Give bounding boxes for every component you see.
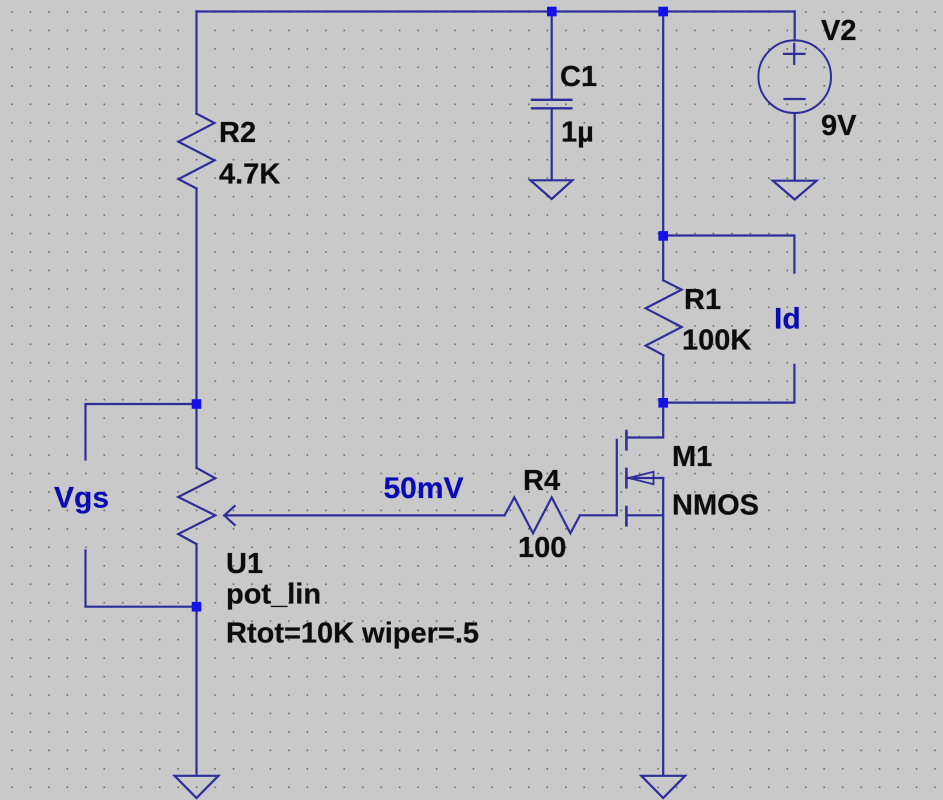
- svg-text:V2: V2: [821, 15, 856, 47]
- svg-text:9V: 9V: [821, 110, 857, 142]
- svg-text:R1: R1: [684, 284, 721, 316]
- svg-text:C1: C1: [560, 61, 597, 93]
- svg-text:100: 100: [518, 532, 566, 564]
- svg-text:R2: R2: [219, 117, 256, 149]
- svg-text:50mV: 50mV: [384, 472, 464, 505]
- svg-text:Id: Id: [774, 303, 801, 336]
- svg-text:R4: R4: [523, 465, 560, 497]
- svg-text:1µ: 1µ: [561, 117, 594, 149]
- svg-text:M1: M1: [672, 441, 712, 473]
- svg-text:4.7K: 4.7K: [219, 159, 280, 191]
- svg-text:Vgs: Vgs: [54, 482, 109, 515]
- svg-text:pot_lin: pot_lin: [226, 578, 321, 610]
- svg-text:NMOS: NMOS: [672, 490, 759, 522]
- svg-text:Rtot=10K wiper=.5: Rtot=10K wiper=.5: [226, 618, 479, 650]
- svg-text:U1: U1: [226, 548, 263, 580]
- svg-text:100K: 100K: [682, 325, 751, 357]
